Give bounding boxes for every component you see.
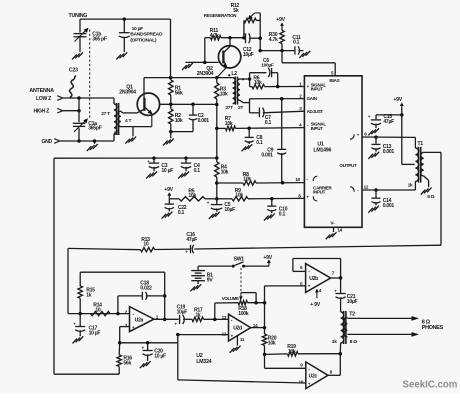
svg-text:ADJUST: ADJUST <box>307 109 324 114</box>
svg-text:0.1: 0.1 <box>265 120 272 126</box>
svg-text:SeekIC.com: SeekIC.com <box>403 379 458 390</box>
svg-text:REGENERATION: REGENERATION <box>204 13 236 18</box>
svg-text:47µF: 47µF <box>383 119 394 125</box>
svg-text:+9V: +9V <box>263 255 272 261</box>
svg-text:0.001: 0.001 <box>198 118 210 124</box>
svg-text:0.022: 0.022 <box>140 285 152 291</box>
svg-text:8 Ω: 8 Ω <box>350 339 357 345</box>
svg-text:T1: T1 <box>417 141 423 147</box>
svg-text:13: 13 <box>222 315 227 320</box>
svg-text:12: 12 <box>222 331 227 336</box>
svg-text:10: 10 <box>295 177 300 182</box>
svg-text:PHONES: PHONES <box>422 325 444 331</box>
svg-text:100µF: 100µF <box>261 63 274 69</box>
svg-text:10k: 10k <box>268 340 276 346</box>
svg-text:BIAS: BIAS <box>329 78 339 84</box>
svg-text:365 pF: 365 pF <box>92 37 107 43</box>
svg-text:365pF: 365pF <box>88 126 101 132</box>
svg-text:+9V: +9V <box>164 187 173 193</box>
svg-text:12: 12 <box>364 184 369 189</box>
svg-text:100k: 100k <box>238 311 249 317</box>
svg-text:14: 14 <box>337 228 342 233</box>
svg-text:GND: GND <box>42 139 53 145</box>
svg-text:1k: 1k <box>408 183 413 189</box>
svg-text:LOW Z: LOW Z <box>36 96 51 102</box>
svg-text:9V: 9V <box>207 278 214 284</box>
svg-text:+ 9V: + 9V <box>310 302 321 308</box>
svg-text:1k: 1k <box>195 313 201 319</box>
svg-text:U2b: U2b <box>309 276 318 282</box>
svg-text:10 µF: 10 µF <box>89 330 101 336</box>
svg-text:0.1: 0.1 <box>194 168 201 174</box>
svg-text:10 µF: 10 µF <box>154 354 166 360</box>
svg-text:56k: 56k <box>175 90 183 96</box>
svg-text:10µF: 10µF <box>347 299 358 305</box>
svg-text:LM1496: LM1496 <box>313 148 331 154</box>
svg-text:10k: 10k <box>243 177 251 183</box>
svg-text:VOLUME: VOLUME <box>222 296 239 301</box>
svg-text:(OPTIONAL): (OPTIONAL) <box>130 38 157 44</box>
svg-text:47µF: 47µF <box>186 237 197 243</box>
svg-text:T2: T2 <box>349 312 355 318</box>
svg-text:U2a: U2a <box>135 318 144 324</box>
svg-text:INPUT: INPUT <box>311 86 324 91</box>
svg-text:+9V: +9V <box>276 17 285 23</box>
svg-text:10 µF: 10 µF <box>161 168 173 174</box>
svg-text:11: 11 <box>240 337 245 342</box>
svg-text:10k: 10k <box>288 349 296 355</box>
svg-text:ANTENNA: ANTENNA <box>29 88 54 94</box>
svg-text:10: 10 <box>95 308 101 314</box>
svg-text:27T: 27T <box>225 105 233 111</box>
svg-text:10k: 10k <box>220 91 228 97</box>
svg-text:U2d: U2d <box>233 326 242 332</box>
svg-text:10k: 10k <box>235 193 243 199</box>
svg-text:10k: 10k <box>221 169 229 175</box>
svg-text:0.001: 0.001 <box>383 149 395 155</box>
svg-text:4 T: 4 T <box>125 118 131 124</box>
svg-text:C23: C23 <box>69 68 78 74</box>
svg-text:10k: 10k <box>188 193 196 199</box>
svg-text:2T: 2T <box>238 105 243 111</box>
svg-text:10µF: 10µF <box>177 310 188 316</box>
svg-text:0.001: 0.001 <box>261 152 273 158</box>
svg-text:LM324: LM324 <box>196 359 211 365</box>
svg-text:0.1: 0.1 <box>178 210 185 216</box>
svg-text:INPUT: INPUT <box>311 126 324 131</box>
svg-text:0.1: 0.1 <box>279 211 286 217</box>
svg-text:0.1: 0.1 <box>293 40 300 46</box>
svg-text:OUTPUT: OUTPUT <box>339 163 357 168</box>
svg-text:L1: L1 <box>114 131 120 137</box>
svg-text:HIGH Z: HIGH Z <box>34 109 50 115</box>
svg-text:56k: 56k <box>123 361 131 367</box>
svg-text:0.001: 0.001 <box>383 203 395 209</box>
svg-text:2N3904: 2N3904 <box>119 90 136 96</box>
svg-text:10µF: 10µF <box>243 52 254 58</box>
svg-text:U2c: U2c <box>309 373 318 379</box>
svg-text:U1: U1 <box>317 141 324 147</box>
svg-text:10: 10 <box>299 380 304 385</box>
svg-text:INPUT: INPUT <box>313 189 326 194</box>
svg-text:2N3904: 2N3904 <box>197 71 214 77</box>
svg-text:10k: 10k <box>175 118 183 124</box>
svg-text:1k: 1k <box>332 339 337 345</box>
svg-text:0.1: 0.1 <box>256 140 263 146</box>
svg-text:27 T: 27 T <box>101 111 110 117</box>
svg-text:1k: 1k <box>86 293 92 299</box>
svg-text:L2: L2 <box>231 71 237 77</box>
svg-text:+9V: +9V <box>393 97 402 103</box>
svg-text:10: 10 <box>143 242 149 248</box>
svg-text:10µF: 10µF <box>224 207 235 213</box>
svg-text:4.7k: 4.7k <box>269 37 278 43</box>
svg-text:TUNING: TUNING <box>69 13 88 19</box>
svg-text:GAIN: GAIN <box>307 96 317 101</box>
svg-text:8 Ω: 8 Ω <box>427 194 434 200</box>
svg-text:10k: 10k <box>254 80 262 86</box>
